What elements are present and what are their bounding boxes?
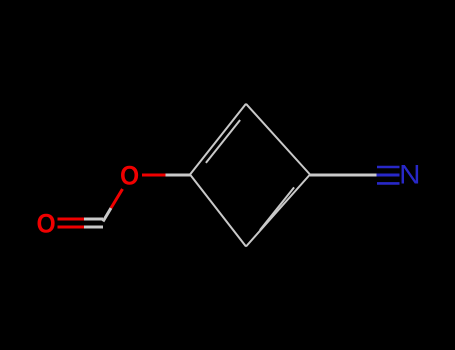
formyl C to ester O bond, red half (oxygen side) xyxy=(111,189,123,208)
benzene ring edge: right vertex to bottom apex xyxy=(246,175,310,247)
carbonyl C=O double bond, upper line gray half xyxy=(84,218,103,221)
carbonyl C=O double bond, upper line red half xyxy=(58,218,85,221)
nitrile triple bond, top blue line xyxy=(377,166,400,169)
nitrile triple bond, middle blue line xyxy=(377,174,400,177)
ester O to ring bond, gray half (carbon side) xyxy=(166,174,191,177)
carbonyl C=O double bond, lower line gray half xyxy=(84,226,103,229)
svg-text:O: O xyxy=(37,209,56,239)
formyl C to ester O bond, gray half (carbon side) xyxy=(103,208,111,222)
aromatic double-bond inner line along upper-left edge xyxy=(206,120,240,163)
aromatic double-bond inner line along lower-right edge xyxy=(260,187,294,230)
nitrile triple bond, bottom blue line xyxy=(377,182,400,185)
benzene ring edge: top apex to right vertex xyxy=(246,104,310,175)
svg-text:N: N xyxy=(399,160,420,190)
ring to nitrile C bond, gray xyxy=(310,174,377,177)
benzene ring edge: left vertex to top apex xyxy=(190,104,246,175)
benzene ring edge: bottom apex to left vertex xyxy=(190,175,246,247)
svg-text:O: O xyxy=(120,161,139,191)
ester O to ring bond, red half (oxygen side) xyxy=(142,174,166,177)
carbonyl C=O double bond, lower line red half xyxy=(58,226,85,229)
